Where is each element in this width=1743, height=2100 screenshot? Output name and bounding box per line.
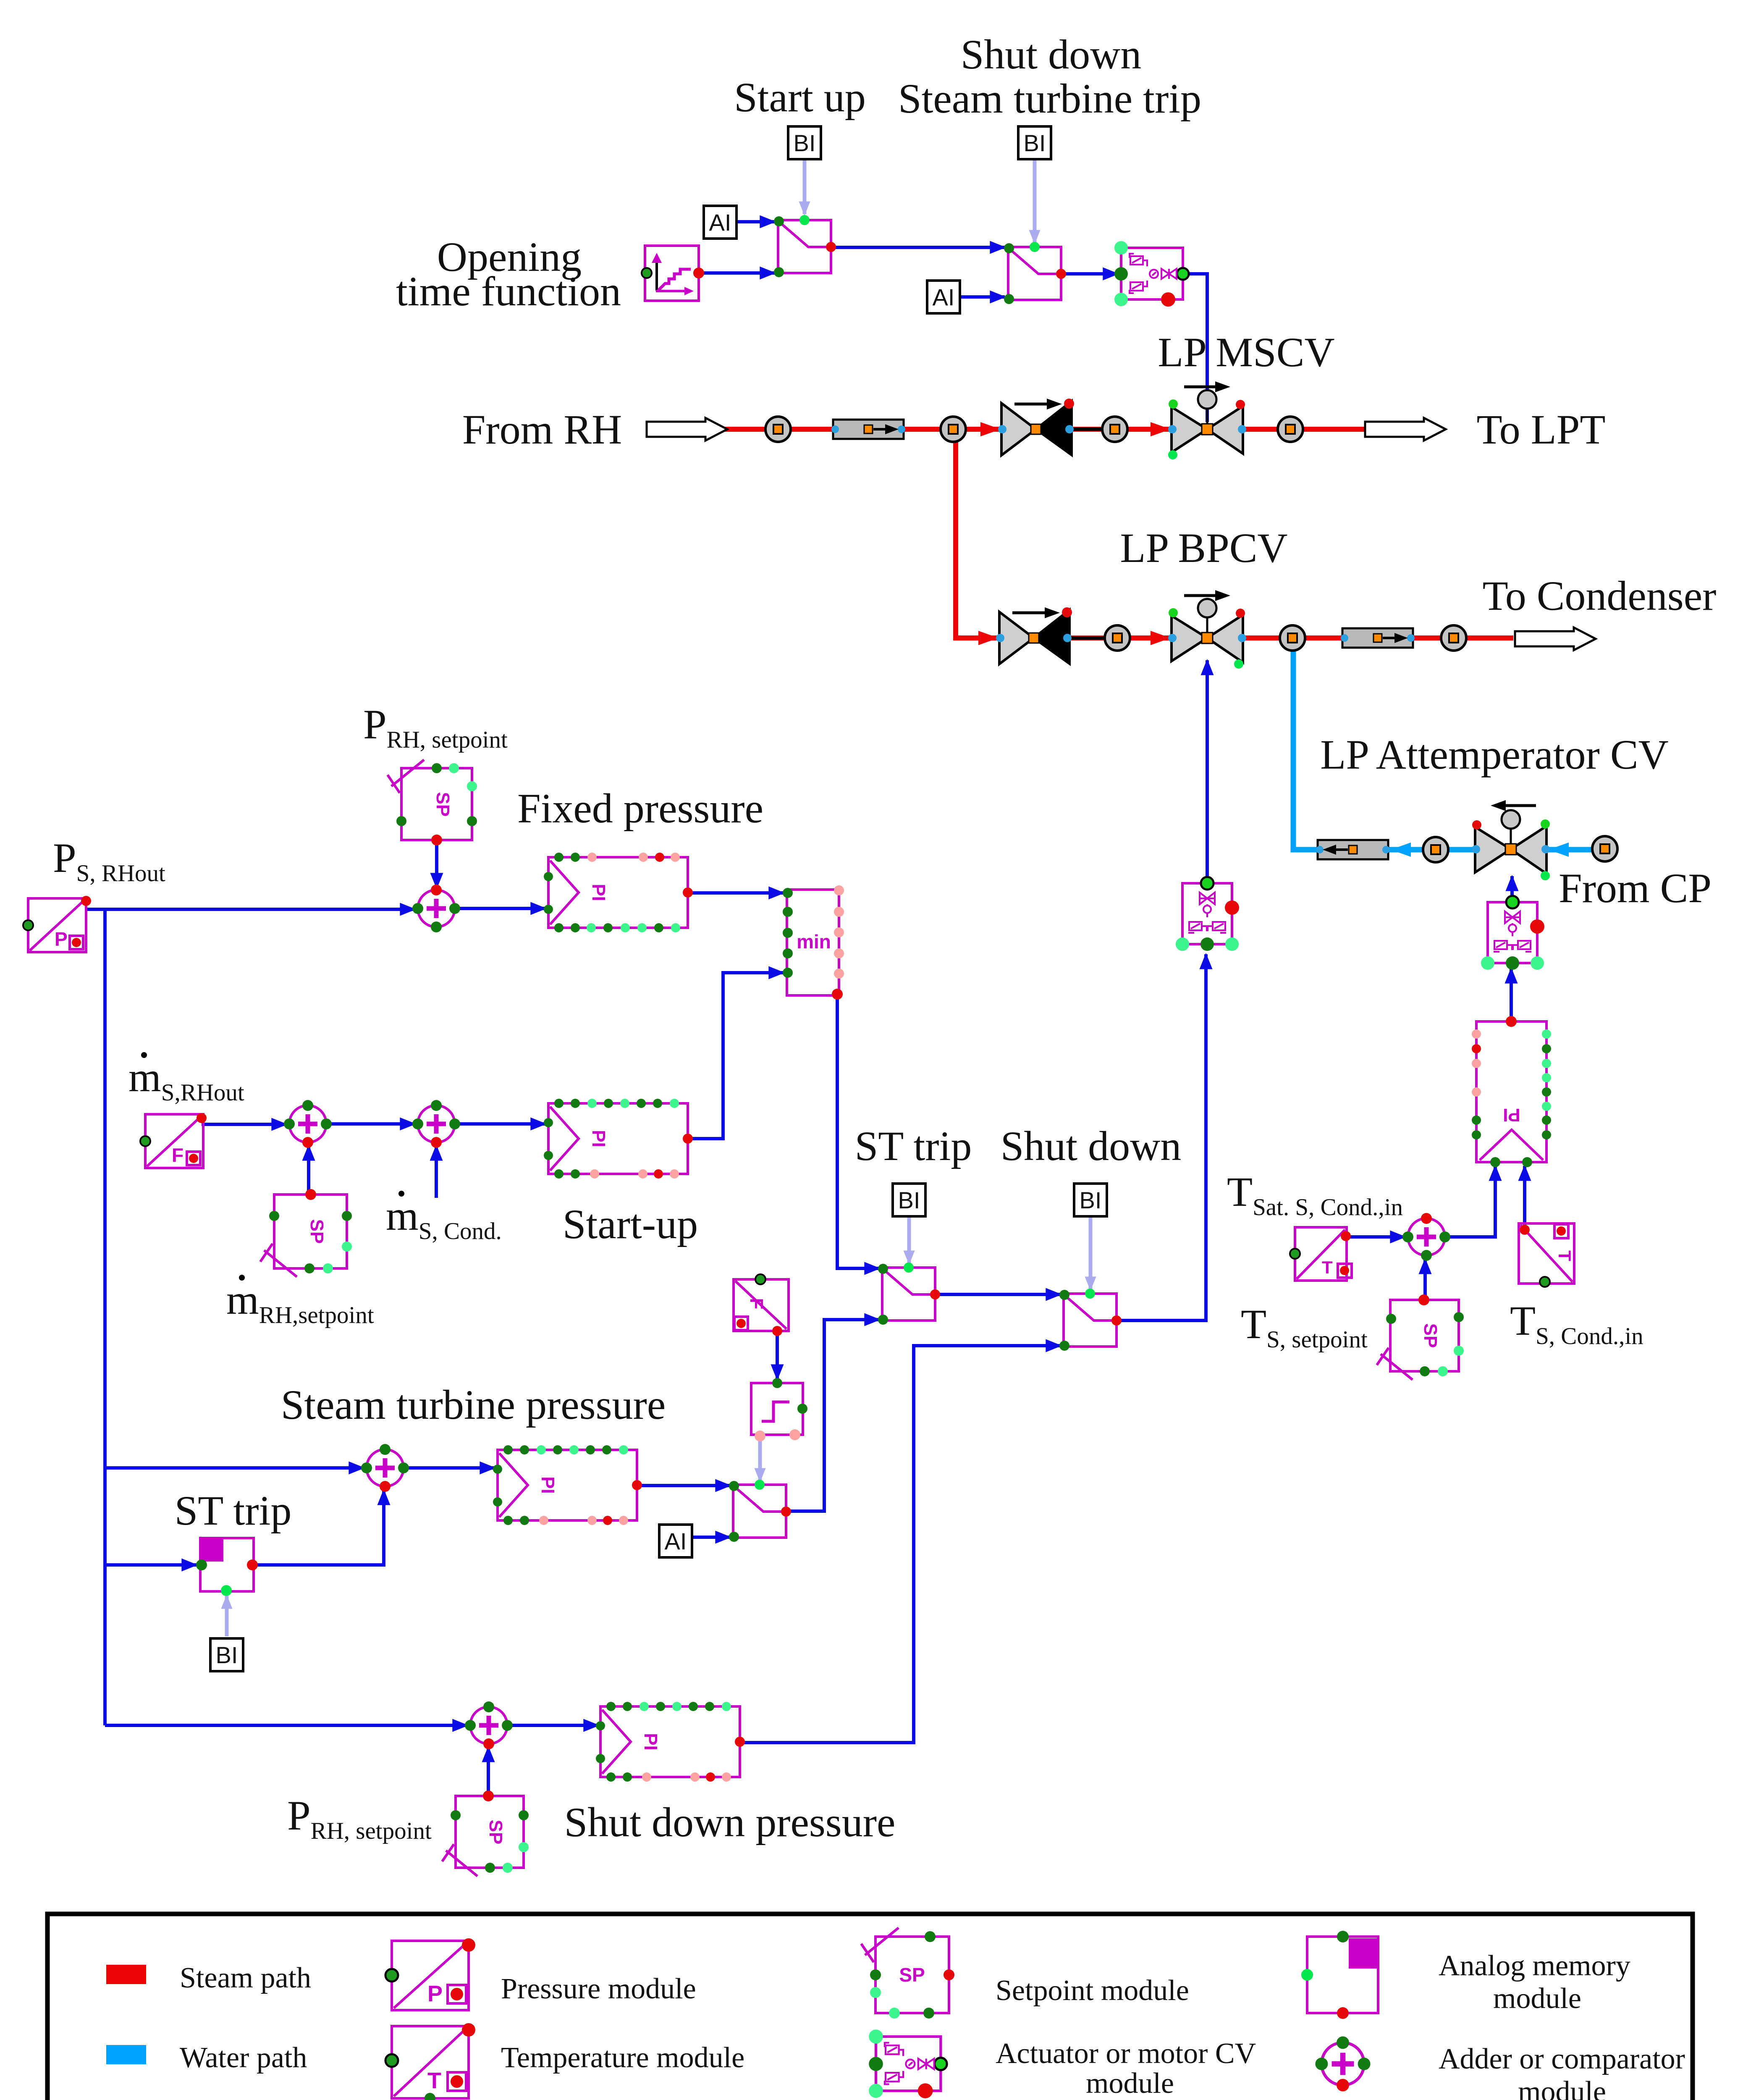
svg-text:module: module	[1086, 2067, 1174, 2100]
wire AI to switch U1	[737, 220, 775, 223]
legend analog memory module	[1301, 1931, 1378, 2019]
svg-text:P: P	[427, 1981, 443, 2006]
pipe segment 3 attemperator reversed	[1316, 840, 1390, 859]
BI box memory	[210, 1638, 243, 1671]
svg-text:ST trip: ST trip	[855, 1123, 972, 1169]
wire actuator U8 to LP Attemperator CV	[1510, 876, 1514, 901]
legend box	[47, 1914, 1693, 2100]
svg-text:SP: SP	[485, 1820, 506, 1845]
wire black stub check valve 2 to connector	[1069, 636, 1106, 640]
pressure module P S RHout	[23, 896, 91, 952]
wire min selector to switch U4 ST trip	[837, 996, 879, 1268]
svg-text:P: P	[55, 928, 68, 950]
wire switch U4 to switch U5	[935, 1293, 1061, 1296]
svg-text:SP: SP	[307, 1219, 327, 1244]
wire long vertical pressure signal bus	[103, 909, 107, 1725]
wire steam branch to LP BPCV and To Condenser	[956, 429, 1513, 638]
wire black stub check valve 1 to connector	[1069, 428, 1104, 431]
wire adder A4 to PI3	[404, 1466, 495, 1470]
legend temperature module	[385, 2023, 475, 2100]
analog memory module ST trip	[196, 1538, 258, 1596]
svg-text:Analog memory: Analog memory	[1439, 1950, 1630, 1982]
svg-text:Steam turbine pressure: Steam turbine pressure	[281, 1381, 666, 1428]
check valve 2	[996, 607, 1072, 666]
wire adder A3 to PI2	[455, 1122, 545, 1126]
svg-text:Steam turbine trip: Steam turbine trip	[898, 75, 1201, 122]
steam arrow into LP BPCV	[1151, 631, 1171, 645]
svg-text:SP: SP	[432, 792, 453, 817]
svg-text:Steam path: Steam path	[180, 1962, 311, 1994]
PI controller 4 shut down pressure	[596, 1702, 745, 1782]
svg-text:Shut down: Shut down	[1001, 1123, 1182, 1169]
connector node 3	[1102, 417, 1127, 442]
wire switch U2 to actuator U3	[1061, 272, 1118, 276]
analog switch U4 ST trip	[878, 1263, 940, 1325]
setpoint module SP4 P RH setpoint	[442, 1790, 529, 1876]
svg-text:Adder or comparator: Adder or comparator	[1439, 2043, 1685, 2075]
wire actuator U6 to LP BPCV valve	[1206, 660, 1209, 882]
analog switch U2 Steam turbine trip	[1004, 242, 1066, 304]
svg-text:To Condenser: To Condenser	[1483, 572, 1717, 619]
svg-text:PI: PI	[1503, 1105, 1520, 1125]
svg-text:ST trip: ST trip	[175, 1487, 292, 1534]
wire T2 up to vertical PI	[1523, 1166, 1526, 1230]
wire adder A6 up to vertical PI	[1445, 1166, 1495, 1237]
vertical PI controller attemperator	[1472, 1016, 1551, 1167]
PI controller 1 fixed pressure	[544, 853, 693, 932]
white arrow From RH	[647, 418, 727, 441]
wire vertical PI to actuator U8	[1510, 969, 1513, 1021]
wire F2 down to limit checker	[776, 1332, 779, 1379]
legend setpoint module	[861, 1928, 954, 2019]
svg-text:Start up: Start up	[734, 74, 866, 121]
wire steam main From RH to To LPT	[714, 427, 1367, 432]
temperature module T2 condenser inlet	[1519, 1223, 1575, 1287]
svg-text:To LPT: To LPT	[1477, 406, 1606, 453]
lavender arrow BI to memory module	[225, 1596, 229, 1636]
control valve LP BPCV	[1168, 590, 1246, 669]
adder A2	[284, 1100, 332, 1148]
legend water path swatch	[106, 2045, 146, 2064]
actuator module U6 LP BPCV vertical	[1176, 877, 1239, 951]
AI box U2 input	[927, 281, 960, 313]
pipe segment 2	[1341, 628, 1415, 648]
legend steam path swatch	[106, 1965, 146, 1984]
wire SP4 to adder A5	[487, 1747, 490, 1795]
connector node 2 junction	[941, 417, 966, 442]
connector node 1	[765, 417, 791, 442]
connector node 9 From CP	[1592, 836, 1617, 861]
svg-text:From RH: From RH	[462, 406, 622, 453]
svg-text:Start-up: Start-up	[563, 1201, 698, 1247]
wire m S Cond input to adder A3	[435, 1146, 438, 1198]
svg-text:Temperature module: Temperature module	[501, 2042, 744, 2074]
AI box U7 input	[659, 1525, 692, 1557]
connector node 5	[1105, 625, 1130, 651]
analog switch U7 steam turbine pressure	[729, 1480, 791, 1542]
pipe segment 1	[831, 420, 905, 439]
svg-text:module: module	[1518, 2076, 1606, 2100]
wire adder A1 to PI1	[455, 907, 545, 910]
wire AI to switch U2	[960, 295, 1005, 299]
wire adder A5 to PI4	[507, 1724, 598, 1727]
wire switch U7 output to switch U4 second input	[787, 1320, 879, 1511]
legend actuator module	[869, 2029, 947, 2098]
legend adder module	[1315, 2036, 1370, 2091]
adder A4 steam turbine pressure	[361, 1444, 409, 1492]
setpoint module SP2 m RH setpoint	[260, 1189, 352, 1277]
analog switch U5 Shut down	[1059, 1289, 1122, 1351]
wire PI1 to min selector	[688, 891, 784, 895]
adder A1 fixed pressure	[412, 885, 460, 932]
wire PI3 to switch U7	[635, 1484, 730, 1487]
wire switch U1 to switch U2	[831, 246, 1005, 249]
wire bus to memory module	[105, 1563, 197, 1567]
svg-text:time function: time function	[396, 268, 621, 315]
wire memory to adder A4	[254, 1490, 384, 1565]
adder A3	[412, 1100, 460, 1148]
svg-text:From CP: From CP	[1559, 865, 1712, 911]
svg-text:T: T	[1322, 1257, 1333, 1277]
minimum selector	[783, 885, 844, 1000]
wire switch U5 output up to actuator U6	[1117, 954, 1206, 1320]
PI controller 3 steam turbine pressure	[493, 1445, 642, 1525]
svg-text:F: F	[172, 1144, 183, 1166]
PI controller 2 start-up	[544, 1099, 693, 1179]
wire T1 to adder A6	[1347, 1235, 1405, 1239]
svg-text:Fixed pressure: Fixed pressure	[517, 785, 763, 832]
wire AI to switch U7	[692, 1536, 730, 1539]
flow module F1 m S RHout	[140, 1113, 207, 1168]
svg-text:Setpoint module: Setpoint module	[996, 1974, 1189, 2007]
svg-text:module: module	[1493, 1982, 1581, 2015]
adder A6 temperature	[1402, 1213, 1450, 1261]
lavender arrow limit checker to switch U7	[758, 1438, 762, 1481]
lavender arrow BI Start up	[803, 160, 807, 214]
connector node 7	[1441, 625, 1466, 651]
svg-text:F: F	[746, 1298, 767, 1310]
BI box ST trip	[893, 1184, 925, 1216]
AI box U1 input	[704, 206, 737, 239]
setpoint module SP3 T S setpoint	[1377, 1294, 1464, 1380]
wire bus to adder A5	[105, 1724, 467, 1727]
BI box Shut down Steam turbine trip	[1018, 126, 1051, 159]
BI box Start up	[788, 126, 821, 159]
wire actuator U3 to LP MSCV valve	[1189, 274, 1207, 422]
steam arrow into check valve 2	[978, 631, 999, 645]
wire SP2 to adder A2	[307, 1146, 310, 1195]
wire water path BPCV line to From CP	[1293, 649, 1591, 850]
connector node 8	[1423, 837, 1448, 862]
BI box Shut down	[1074, 1184, 1107, 1216]
temperature module T1 saturation	[1290, 1227, 1352, 1281]
wire polyline module to switch U1	[699, 271, 775, 275]
actuator module U3 LP MSCV	[1114, 241, 1189, 307]
adder A5 shut down pressure	[465, 1701, 513, 1749]
svg-text:LP Attemperator CV: LP Attemperator CV	[1320, 731, 1669, 778]
wire PI4 output to switch U5 second input	[739, 1346, 1061, 1743]
svg-text:T: T	[1555, 1250, 1575, 1261]
wire F1 to adder A2	[202, 1123, 286, 1126]
svg-text:T: T	[427, 2068, 441, 2093]
svg-text:LP BPCV: LP BPCV	[1120, 525, 1287, 571]
white arrow To LPT	[1365, 418, 1446, 441]
svg-text:SP: SP	[899, 1964, 925, 1986]
check valve 1	[998, 399, 1074, 457]
svg-text:Water path: Water path	[180, 2042, 307, 2074]
wire SP3 to adder A6	[1423, 1259, 1427, 1299]
svg-text:LP MSCV: LP MSCV	[1158, 329, 1334, 375]
lavender arrow BI to switch U4	[907, 1216, 911, 1263]
control valve LP MSCV	[1168, 381, 1246, 459]
svg-text:Shut down: Shut down	[961, 31, 1142, 78]
connector node 6 water junction	[1280, 625, 1305, 651]
wire adder A2 to adder A3	[326, 1122, 415, 1126]
steam arrow into check valve 1	[980, 422, 1001, 436]
polyline module opening time function	[642, 246, 704, 301]
svg-text:SP: SP	[1420, 1323, 1441, 1348]
svg-text:min: min	[797, 931, 831, 953]
water arrow into attemperator pipe	[1391, 843, 1411, 857]
wire PI2 up to min selector second input	[688, 973, 784, 1139]
setpoint module SP1 P RH setpoint	[388, 760, 477, 845]
connector node 4	[1278, 417, 1303, 442]
svg-text:Actuator or motor CV: Actuator or motor CV	[996, 2037, 1256, 2070]
legend pressure module	[385, 1938, 475, 2010]
actuator module U8 attemperator vertical	[1481, 896, 1544, 970]
lavender arrow BI Shut down steam turbine trip	[1033, 160, 1037, 243]
svg-text:Pressure module: Pressure module	[501, 1973, 696, 2005]
steam arrow into LP MSCV	[1151, 422, 1171, 436]
wire P module to adder A1	[86, 908, 415, 911]
white arrow To Condenser	[1515, 627, 1596, 650]
wire SP1 to adder A1	[435, 840, 438, 888]
control valve LP Attemperator CV	[1472, 800, 1550, 880]
water arrow into LP Attemperator CV	[1549, 843, 1569, 857]
flow module F2 rotated	[734, 1274, 789, 1336]
lavender arrow BI to switch U5	[1089, 1216, 1093, 1289]
analog switch U1 Start up	[774, 215, 836, 277]
wire bus to adder A4	[105, 1466, 364, 1470]
limit value checker module	[751, 1378, 807, 1441]
svg-text:Shut down pressure: Shut down pressure	[564, 1799, 896, 1845]
